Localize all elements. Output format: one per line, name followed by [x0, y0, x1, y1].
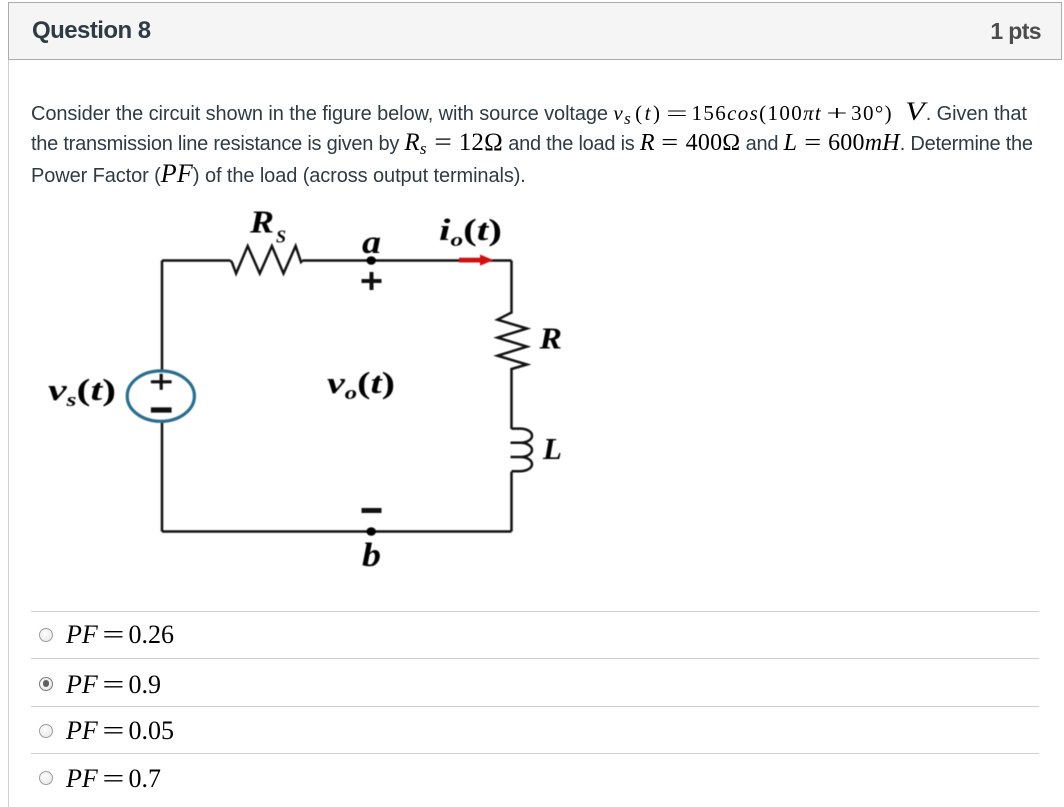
minus sign inside source [151, 407, 172, 412]
wire left vertical top (source top to top-left corner) [161, 261, 164, 370]
option 2 label [66, 672, 161, 698]
paragraph line 2 [31, 127, 1033, 164]
node a junction dot [366, 256, 376, 265]
inductor L coils [511, 429, 533, 472]
resistor Rs zigzag [231, 246, 303, 274]
plus sign inside source [151, 374, 172, 390]
option 4 label [66, 766, 161, 792]
svg-text:vo(t): vo(t) [327, 365, 395, 404]
plus sign below node a [362, 272, 382, 290]
voltage source Vs ellipse [127, 371, 194, 421]
svg-text:b: b [362, 537, 381, 574]
wire left vertical bottom (bottom-left corner to source bottom) [161, 423, 164, 532]
option 3 label [66, 718, 174, 744]
svg-text:io(t): io(t) [439, 212, 502, 251]
svg-text:L: L [542, 431, 562, 466]
svg-text:R: R [249, 204, 274, 240]
paragraph line 3 [31, 158, 526, 192]
minus sign above node b [362, 508, 382, 513]
option 1 label [66, 622, 174, 648]
option 4 radio [39, 771, 53, 785]
answer separators [31, 611, 1039, 612]
svg-text:a: a [362, 225, 381, 261]
paragraph line 1 [31, 96, 1027, 134]
svg-text:vs(t): vs(t) [48, 372, 116, 411]
option 2 radio (selected) [39, 677, 53, 691]
option 1 radio [39, 628, 53, 642]
svg-text:S: S [276, 227, 286, 247]
wire top-left horizontal (corner to Rs) [162, 259, 231, 262]
wire top middle (Rs to node a to corner) [302, 259, 511, 262]
wire below L to bottom-right corner [510, 472, 513, 532]
wire between R and L [510, 371, 513, 429]
resistor R zigzag [498, 311, 528, 371]
question container left border [8, 2, 9, 807]
wire bottom horizontal [162, 530, 512, 533]
option 3 radio [39, 724, 53, 738]
wire right vertical (corner to resistor R) [510, 261, 513, 312]
question header [8, 2, 1062, 60]
svg-text:R: R [538, 321, 562, 356]
node b junction dot [366, 527, 376, 536]
current arrow io(t) red [459, 255, 494, 266]
